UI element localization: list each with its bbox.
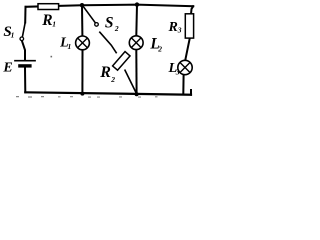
svg-text:R: R [168,20,178,35]
svg-text:R: R [41,12,52,29]
svg-text:1: 1 [52,20,56,29]
svg-text:3: 3 [175,67,180,76]
svg-text:2: 2 [110,75,115,84]
svg-text:R: R [99,64,111,81]
svg-text:2: 2 [114,24,119,33]
svg-text:E: E [2,61,12,76]
svg-text:1: 1 [68,42,72,51]
svg-text:1: 1 [11,31,15,40]
svg-text:S: S [105,14,114,31]
svg-text:2: 2 [157,45,162,54]
svg-text:3: 3 [177,26,182,35]
